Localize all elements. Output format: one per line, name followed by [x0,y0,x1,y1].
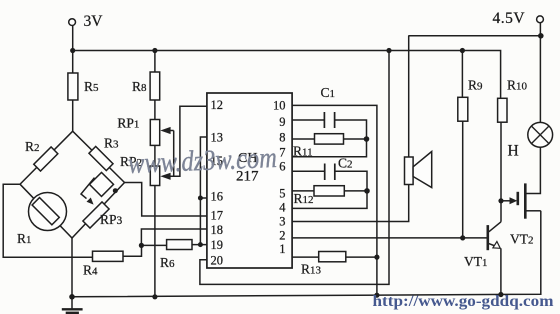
svg-text:R6: R6 [160,255,175,270]
svg-text:VT1: VT1 [464,254,488,269]
svg-text:17: 17 [211,209,224,223]
svg-text:13: 13 [211,130,224,144]
svg-text:20: 20 [211,253,224,267]
svg-text:3: 3 [279,215,285,229]
svg-text:http://www.go-gddq.com: http://www.go-gddq.com [373,293,554,310]
svg-text:7: 7 [279,145,285,159]
svg-text:R10: R10 [507,78,528,93]
svg-text:R8: R8 [132,79,147,94]
svg-text:19: 19 [211,238,224,252]
svg-text:12: 12 [211,98,224,112]
svg-text:9: 9 [279,115,285,129]
svg-text:R5: R5 [84,79,99,94]
svg-text:6: 6 [279,159,285,173]
svg-text:4: 4 [279,201,286,215]
svg-text:R13: R13 [301,262,322,277]
svg-text:R3: R3 [104,136,119,151]
svg-text:3V: 3V [84,13,104,30]
svg-text:R4: R4 [83,263,98,278]
svg-text:C2: C2 [338,156,353,171]
svg-text:4.5V: 4.5V [493,10,526,27]
svg-text:C1: C1 [321,85,336,100]
svg-text:R9: R9 [468,78,483,93]
svg-text:RP1: RP1 [117,116,139,131]
svg-text:1: 1 [279,242,285,256]
svg-text:8: 8 [279,130,285,144]
svg-text:18: 18 [211,223,224,237]
svg-text:R12: R12 [294,191,314,206]
svg-text:16: 16 [211,190,224,204]
svg-text:R11: R11 [293,144,313,159]
svg-text:2: 2 [279,228,285,242]
svg-text:RP3: RP3 [100,212,123,227]
svg-text:R2: R2 [25,139,40,154]
svg-text:www.dz3w.com: www.dz3w.com [127,142,277,180]
svg-text:10: 10 [273,98,286,112]
svg-text:R1: R1 [17,231,32,246]
svg-text:H: H [508,143,519,160]
svg-text:VT2: VT2 [510,232,534,247]
svg-text:5: 5 [279,187,285,201]
